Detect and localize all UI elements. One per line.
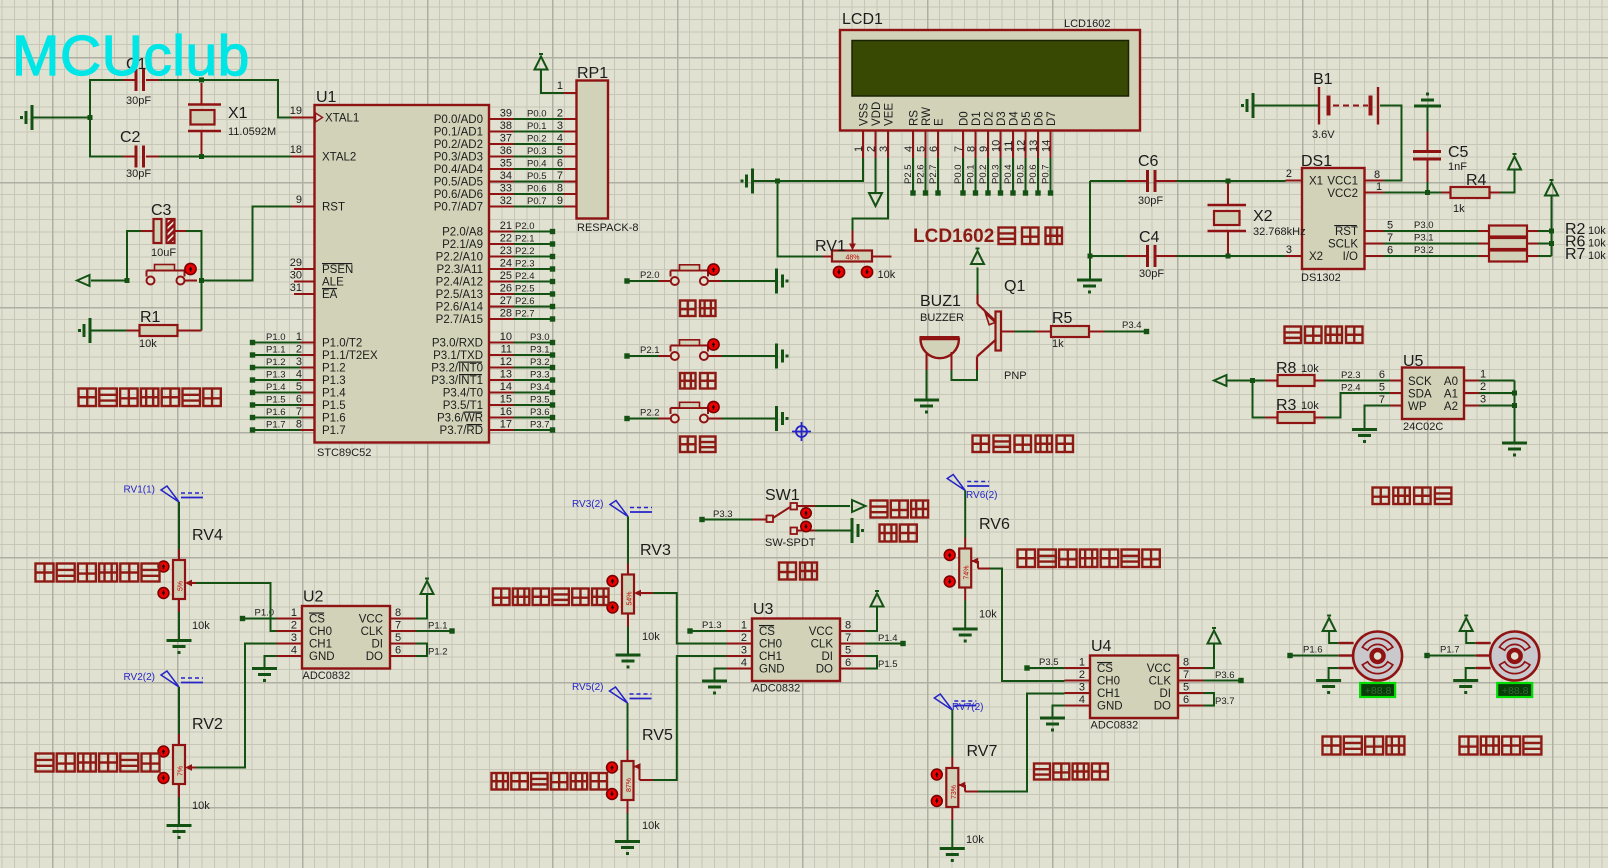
svg-text:34: 34: [500, 170, 512, 182]
svg-text:D5: D5: [1021, 111, 1033, 126]
svg-text:5: 5: [557, 145, 563, 157]
wire VSS: [754, 158, 863, 257]
svg-text:C4: C4: [1139, 229, 1160, 246]
svg-text:P1.7: P1.7: [322, 425, 346, 437]
node P2.1: [489, 233, 555, 247]
svg-text:11.0592M: 11.0592M: [228, 126, 276, 138]
power arrow down: [869, 193, 882, 206]
logo MCUclub: [12, 24, 250, 88]
potentiometer RV4 10k: [158, 527, 223, 632]
wire P0.6: [489, 183, 577, 195]
svg-text:P0.5: P0.5: [527, 171, 547, 182]
svg-text:21: 21: [500, 220, 512, 232]
svg-text:X1: X1: [228, 105, 248, 122]
svg-text:4: 4: [741, 657, 747, 669]
svg-text:RP1: RP1: [577, 65, 608, 82]
node P2.3: [489, 258, 555, 272]
svg-text:P1.3: P1.3: [266, 370, 286, 381]
svg-text:X2: X2: [1253, 208, 1273, 225]
svg-text:R3: R3: [1276, 397, 1297, 414]
svg-text:3: 3: [1079, 682, 1085, 694]
svg-text:CH1: CH1: [1097, 688, 1120, 700]
svg-text:P3.7: P3.7: [1215, 696, 1235, 707]
wire P0.4: [489, 158, 577, 170]
svg-text:X1: X1: [1309, 176, 1323, 188]
svg-text:5: 5: [1183, 682, 1189, 694]
svg-text:RST: RST: [322, 202, 345, 214]
svg-text:D2: D2: [984, 111, 996, 126]
wire P3.0: [1365, 220, 1479, 232]
svg-text:P1.3: P1.3: [702, 620, 722, 631]
svg-text:RV5: RV5: [642, 727, 673, 744]
node P1.0: [240, 608, 302, 622]
svg-text:5: 5: [1379, 382, 1385, 394]
svg-text:1: 1: [291, 607, 297, 619]
wire P2.3: [1325, 369, 1403, 381]
junction: [1512, 391, 1517, 409]
wire: [178, 784, 180, 824]
ground: [1453, 681, 1478, 695]
svg-text:P0.4: P0.4: [527, 159, 547, 170]
svg-text:RV7: RV7: [967, 743, 998, 760]
svg-text:P2.0/A8: P2.0/A8: [442, 227, 483, 239]
svg-text:P2.7: P2.7: [515, 309, 535, 320]
node P3.4: [1105, 320, 1150, 334]
label triggered: [880, 525, 917, 542]
svg-text:EA: EA: [322, 289, 338, 301]
terminal arrow untriggered: [852, 500, 866, 512]
svg-text:P3.2: P3.2: [1414, 245, 1434, 256]
svg-text:A1: A1: [1444, 389, 1458, 401]
capacitor C5 1nF: [1413, 132, 1469, 183]
svg-text:P3.7: P3.7: [530, 420, 550, 431]
wire: [951, 710, 953, 768]
svg-text:P0.2/AD2: P0.2/AD2: [434, 139, 483, 151]
wire A0 A1 A2: [1464, 369, 1515, 442]
servo motor: [1476, 632, 1540, 681]
wire P0.7: [489, 195, 577, 207]
svg-text:DI: DI: [822, 651, 834, 663]
svg-text:RV5(2): RV5(2): [572, 682, 604, 693]
svg-text:SCK: SCK: [1408, 376, 1432, 388]
svg-text:2: 2: [291, 620, 297, 632]
svg-text:P0.3: P0.3: [991, 164, 1002, 184]
svg-text:A2: A2: [1444, 401, 1458, 413]
MCU U1 STC89C52: [315, 89, 490, 459]
svg-text:PSEN: PSEN: [322, 264, 353, 276]
ground: [615, 842, 640, 856]
svg-text:P0.5/AD5: P0.5/AD5: [434, 177, 483, 189]
wire: [1466, 631, 1476, 643]
wire: [1255, 105, 1320, 107]
pin 2 X1: [1286, 168, 1303, 181]
potentiometer RV6 10k: [944, 516, 1010, 621]
potentiometer RV3 10k: [607, 542, 671, 643]
svg-text:XTAL2: XTAL2: [322, 152, 356, 164]
wire: [964, 588, 966, 628]
svg-text:6: 6: [296, 394, 302, 406]
svg-text:P2.6: P2.6: [916, 164, 927, 184]
svg-text:LCD1602: LCD1602: [1064, 18, 1110, 30]
svg-text:3: 3: [741, 645, 747, 657]
power arrow: [535, 54, 548, 70]
svg-text:8: 8: [1374, 169, 1380, 181]
svg-text:P3.0/RXD: P3.0/RXD: [432, 338, 483, 350]
node P0.6: [1028, 158, 1041, 196]
svg-text:CLK: CLK: [361, 626, 384, 638]
svg-text:P1.4: P1.4: [322, 388, 346, 400]
svg-text:2: 2: [1079, 669, 1085, 681]
label left right servo: [1323, 737, 1405, 755]
svg-text:P2.5/A13: P2.5/A13: [436, 289, 483, 301]
svg-text:D7: D7: [1046, 111, 1058, 126]
svg-text:P1.2: P1.2: [428, 647, 448, 658]
node P1.5: [250, 394, 315, 408]
wire P0.0: [489, 108, 577, 120]
svg-text:P0.0: P0.0: [527, 109, 547, 120]
wire P2.4: [1325, 382, 1403, 418]
svg-text:P0.7/AD7: P0.7/AD7: [434, 202, 483, 214]
svg-text:RST: RST: [1335, 226, 1358, 238]
svg-text:Q1: Q1: [1004, 278, 1025, 295]
node P2.7: [489, 308, 555, 322]
wire: [722, 418, 776, 420]
svg-text:5: 5: [296, 381, 302, 393]
svg-text:1: 1: [296, 331, 302, 343]
wire: [952, 370, 978, 380]
switch SW1 SW-SPDT: [752, 487, 816, 549]
wire GND: [1053, 706, 1091, 717]
probe RV7(2): [934, 694, 983, 713]
svg-text:30pF: 30pF: [126, 168, 151, 180]
svg-text:9: 9: [296, 194, 302, 206]
svg-text:VCC2: VCC2: [1327, 188, 1358, 200]
capacitor C1: [123, 56, 159, 107]
svg-text:RV2: RV2: [192, 716, 223, 733]
svg-text:3.6V: 3.6V: [1312, 129, 1335, 141]
svg-text:P2.2: P2.2: [640, 408, 660, 419]
svg-text:19: 19: [290, 105, 302, 117]
svg-text:P2.4: P2.4: [1341, 383, 1361, 394]
svg-text:5%: 5%: [178, 581, 185, 591]
resistor R1: [127, 309, 202, 350]
push button reset: [147, 263, 198, 284]
wire: [1227, 381, 1266, 418]
wire VCC: [390, 595, 427, 619]
svg-text:P3.7/RD: P3.7/RD: [440, 425, 483, 437]
chip U4 ADC0832: [1079, 638, 1189, 732]
svg-text:VCC1: VCC1: [1327, 176, 1358, 188]
svg-text:2: 2: [1286, 168, 1292, 180]
crystal X1: [188, 83, 276, 154]
svg-text:VCC: VCC: [1147, 663, 1171, 675]
wire VCC: [1178, 644, 1214, 668]
svg-text:R8: R8: [1276, 360, 1297, 377]
svg-text:SW1: SW1: [765, 487, 800, 504]
svg-text:U1: U1: [316, 89, 337, 106]
svg-text:ADC0832: ADC0832: [1091, 720, 1139, 732]
svg-text:10k: 10k: [1588, 225, 1606, 237]
svg-text:P2.3/A11: P2.3/A11: [437, 264, 483, 276]
svg-text:P1.1: P1.1: [428, 621, 448, 632]
node P0.0: [953, 158, 966, 196]
svg-text:D1: D1: [971, 111, 983, 126]
terminal arrow: [1214, 375, 1227, 386]
label upper light adjust mid: [493, 589, 609, 606]
node P1.3: [687, 620, 752, 634]
battery B1 3.6V: [1312, 71, 1378, 141]
LCD LCD1 LCD1602: [840, 11, 1140, 131]
svg-text:P1.6: P1.6: [1303, 645, 1323, 656]
svg-text:14: 14: [500, 381, 512, 393]
svg-text:10k: 10k: [878, 269, 896, 281]
node P3.5: [1024, 657, 1090, 671]
wire: [1329, 631, 1339, 643]
wire P1.2: [390, 644, 448, 658]
wire: [627, 703, 629, 761]
svg-text:37: 37: [500, 133, 512, 145]
svg-text:P1.5: P1.5: [322, 400, 346, 412]
svg-text:A0: A0: [1444, 376, 1458, 388]
resistor R3 10k: [1265, 397, 1325, 423]
svg-text:CH1: CH1: [309, 639, 332, 651]
svg-text:P2.4/A12: P2.4/A12: [436, 277, 483, 289]
origin marker: [792, 422, 811, 441]
wire VEE: [853, 158, 889, 247]
LCD pin stubs: [863, 131, 1051, 159]
svg-text:10: 10: [500, 331, 512, 343]
resistor R6 10k: [1479, 234, 1607, 251]
svg-text:CLK: CLK: [811, 639, 834, 651]
label rain: [779, 563, 817, 580]
svg-text:4: 4: [1079, 694, 1085, 706]
capacitor C6 30pF: [1126, 153, 1177, 207]
svg-text:7%: 7%: [178, 766, 185, 776]
wire: [722, 355, 776, 357]
svg-text:10k: 10k: [979, 609, 997, 621]
svg-text:ALE: ALE: [322, 277, 344, 289]
node P3.3: [699, 509, 752, 522]
ground: [777, 344, 789, 369]
svg-text:E: E: [934, 118, 946, 126]
svg-text:XTAL1: XTAL1: [325, 113, 359, 125]
svg-text:3: 3: [557, 120, 563, 132]
svg-text:D3: D3: [996, 111, 1008, 126]
svg-text:8: 8: [395, 607, 401, 619]
svg-text:25: 25: [500, 270, 512, 282]
servo angle display: [1497, 683, 1532, 697]
label untriggered: [871, 501, 929, 518]
wire: [92, 330, 127, 332]
node P1.0: [250, 331, 315, 345]
svg-text:+88.8: +88.8: [1365, 685, 1392, 697]
svg-text:P3.5: P3.5: [530, 395, 550, 406]
node P0.5: [1016, 158, 1029, 196]
node P2.4: [489, 270, 555, 284]
label battery voltage adjust: [1018, 550, 1160, 568]
wire P1.5: [840, 656, 898, 670]
chip U3 ADC0832: [741, 601, 851, 695]
svg-text:P1.1/T2EX: P1.1/T2EX: [322, 350, 378, 362]
svg-text:3: 3: [291, 632, 297, 644]
node P1.4: [840, 633, 906, 646]
node P0.7: [1041, 158, 1054, 196]
svg-text:P0.0: P0.0: [953, 164, 964, 184]
node P2.0: [624, 270, 670, 284]
node P3.6: [1178, 670, 1244, 683]
svg-text:29: 29: [290, 257, 302, 269]
probe RV1(1): [124, 485, 204, 503]
svg-text:8: 8: [557, 183, 563, 195]
svg-text:P1.7: P1.7: [1440, 645, 1460, 656]
node P2.5: [489, 283, 555, 297]
chip U5 24C02C: [1402, 353, 1464, 433]
svg-text:10k: 10k: [966, 834, 984, 846]
power arrow: [1208, 628, 1221, 644]
svg-text:RV6(2): RV6(2): [966, 490, 998, 501]
svg-text:10k: 10k: [642, 631, 660, 643]
svg-text:WP: WP: [1408, 401, 1427, 413]
svg-text:DS1302: DS1302: [1301, 272, 1341, 284]
wire: [926, 370, 928, 399]
label upper light adjust: [36, 564, 160, 582]
terminal arrow: [77, 275, 90, 286]
svg-text:38: 38: [500, 120, 512, 132]
wire RV2 wiper to U2 CH1: [185, 644, 277, 771]
wire: [951, 807, 953, 847]
junction: [1088, 179, 1231, 259]
node P3.3: [489, 369, 555, 383]
svg-text:P0.6: P0.6: [1028, 164, 1039, 184]
svg-text:RV7(2): RV7(2): [952, 702, 984, 713]
svg-text:D6: D6: [1034, 111, 1046, 126]
potentiometer RV5 10k: [607, 727, 673, 832]
svg-text:10k: 10k: [1588, 238, 1606, 250]
svg-text:7: 7: [1183, 669, 1189, 681]
svg-text:6: 6: [1183, 694, 1189, 706]
svg-text:10k: 10k: [1301, 400, 1319, 412]
svg-text:ADC0832: ADC0832: [303, 670, 351, 682]
svg-text:SCLK: SCLK: [1328, 239, 1358, 251]
label left light adjust mid: [492, 773, 608, 790]
wire: [815, 505, 850, 507]
svg-text:2: 2: [296, 344, 302, 356]
svg-text:P2.0: P2.0: [640, 270, 660, 281]
chip DS1 DS1302: [1301, 153, 1365, 284]
node P2.0: [489, 220, 555, 234]
svg-text:RV1(1): RV1(1): [124, 485, 156, 496]
label wind speed adjust: [1034, 764, 1108, 780]
svg-text:B1: B1: [1313, 71, 1333, 88]
resistor R2 10k: [1479, 221, 1607, 238]
ground: [1241, 93, 1253, 118]
ground: [1502, 443, 1527, 457]
svg-text:28: 28: [500, 308, 512, 320]
ground: [1316, 681, 1341, 695]
wire RV7 wiper to U4 CH1: [958, 694, 1064, 792]
svg-text:CS: CS: [759, 626, 775, 638]
capacitor C3: [141, 202, 186, 259]
svg-text:4: 4: [557, 133, 563, 145]
node P0.2: [978, 158, 991, 196]
svg-text:RW: RW: [921, 107, 933, 126]
node P3.0: [489, 331, 555, 345]
label clock module: [1285, 327, 1363, 344]
resistor R7 10k: [1479, 246, 1607, 263]
svg-text:P1.5: P1.5: [878, 659, 898, 670]
svg-text:R4: R4: [1466, 172, 1487, 189]
pin 1 VCC2: [1365, 181, 1384, 193]
wire: [627, 517, 629, 575]
wire RV6 wiper to U4 CH0: [971, 558, 1064, 681]
svg-text:P1.6: P1.6: [322, 413, 346, 425]
svg-text:RV3: RV3: [640, 542, 671, 559]
svg-text:P1.2: P1.2: [266, 357, 286, 368]
svg-text:1nF: 1nF: [1448, 161, 1467, 173]
svg-text:8: 8: [296, 419, 302, 431]
svg-text:10k: 10k: [192, 800, 210, 812]
svg-text:1: 1: [1480, 369, 1486, 381]
svg-text:P1.0/T2: P1.0/T2: [322, 338, 362, 350]
capacitor C4 30pF: [1126, 229, 1177, 280]
svg-text:P3.0: P3.0: [1414, 220, 1434, 231]
svg-text:P3.6/WR: P3.6/WR: [437, 413, 483, 425]
label left light adjust: [36, 754, 160, 772]
potentiometer RV2 10k: [158, 716, 223, 812]
svg-text:36: 36: [500, 145, 512, 157]
svg-text:30pF: 30pF: [1139, 268, 1164, 280]
svg-text:P2.6/A14: P2.6/A14: [436, 302, 484, 314]
svg-text:P1.7: P1.7: [266, 420, 286, 431]
svg-text:P2.6: P2.6: [515, 296, 535, 307]
node P1.2: [250, 356, 315, 370]
svg-text:6: 6: [395, 645, 401, 657]
svg-text:8: 8: [1183, 657, 1189, 669]
svg-text:P2.1: P2.1: [640, 345, 660, 356]
power arrow: [1460, 616, 1473, 632]
svg-text:X2: X2: [1309, 251, 1323, 263]
node P1.7: [250, 419, 315, 433]
ground: [20, 105, 32, 130]
pin 29 PSEN: [290, 257, 315, 269]
svg-text:P3.2/INT0: P3.2/INT0: [431, 363, 483, 375]
wire: [815, 530, 851, 532]
svg-text:P0.3/AD3: P0.3/AD3: [434, 152, 483, 164]
svg-text:CH0: CH0: [759, 639, 782, 651]
svg-text:P3.0: P3.0: [530, 332, 550, 343]
wire GND: [715, 669, 753, 680]
svg-text:7: 7: [557, 170, 563, 182]
svg-text:RV4: RV4: [192, 527, 223, 544]
node P0.4: [1003, 158, 1016, 196]
svg-text:16: 16: [500, 406, 512, 418]
svg-text:9: 9: [557, 195, 563, 207]
node P3.6: [489, 406, 555, 420]
pin CH1: [1065, 692, 1091, 694]
svg-text:4: 4: [296, 369, 302, 381]
wire P3.1: [1365, 232, 1479, 244]
wire: [178, 687, 180, 745]
pin CH0: [1065, 680, 1091, 682]
servo motor: [1339, 632, 1403, 681]
power arrow: [871, 591, 884, 607]
svg-text:P3.4/T0: P3.4/T0: [443, 388, 483, 400]
wire: [627, 800, 629, 840]
wire: [91, 231, 202, 281]
svg-text:P2.7/A15: P2.7/A15: [436, 314, 483, 326]
svg-text:P3.1/TXD: P3.1/TXD: [433, 350, 483, 362]
svg-text:P3.2: P3.2: [530, 357, 550, 368]
